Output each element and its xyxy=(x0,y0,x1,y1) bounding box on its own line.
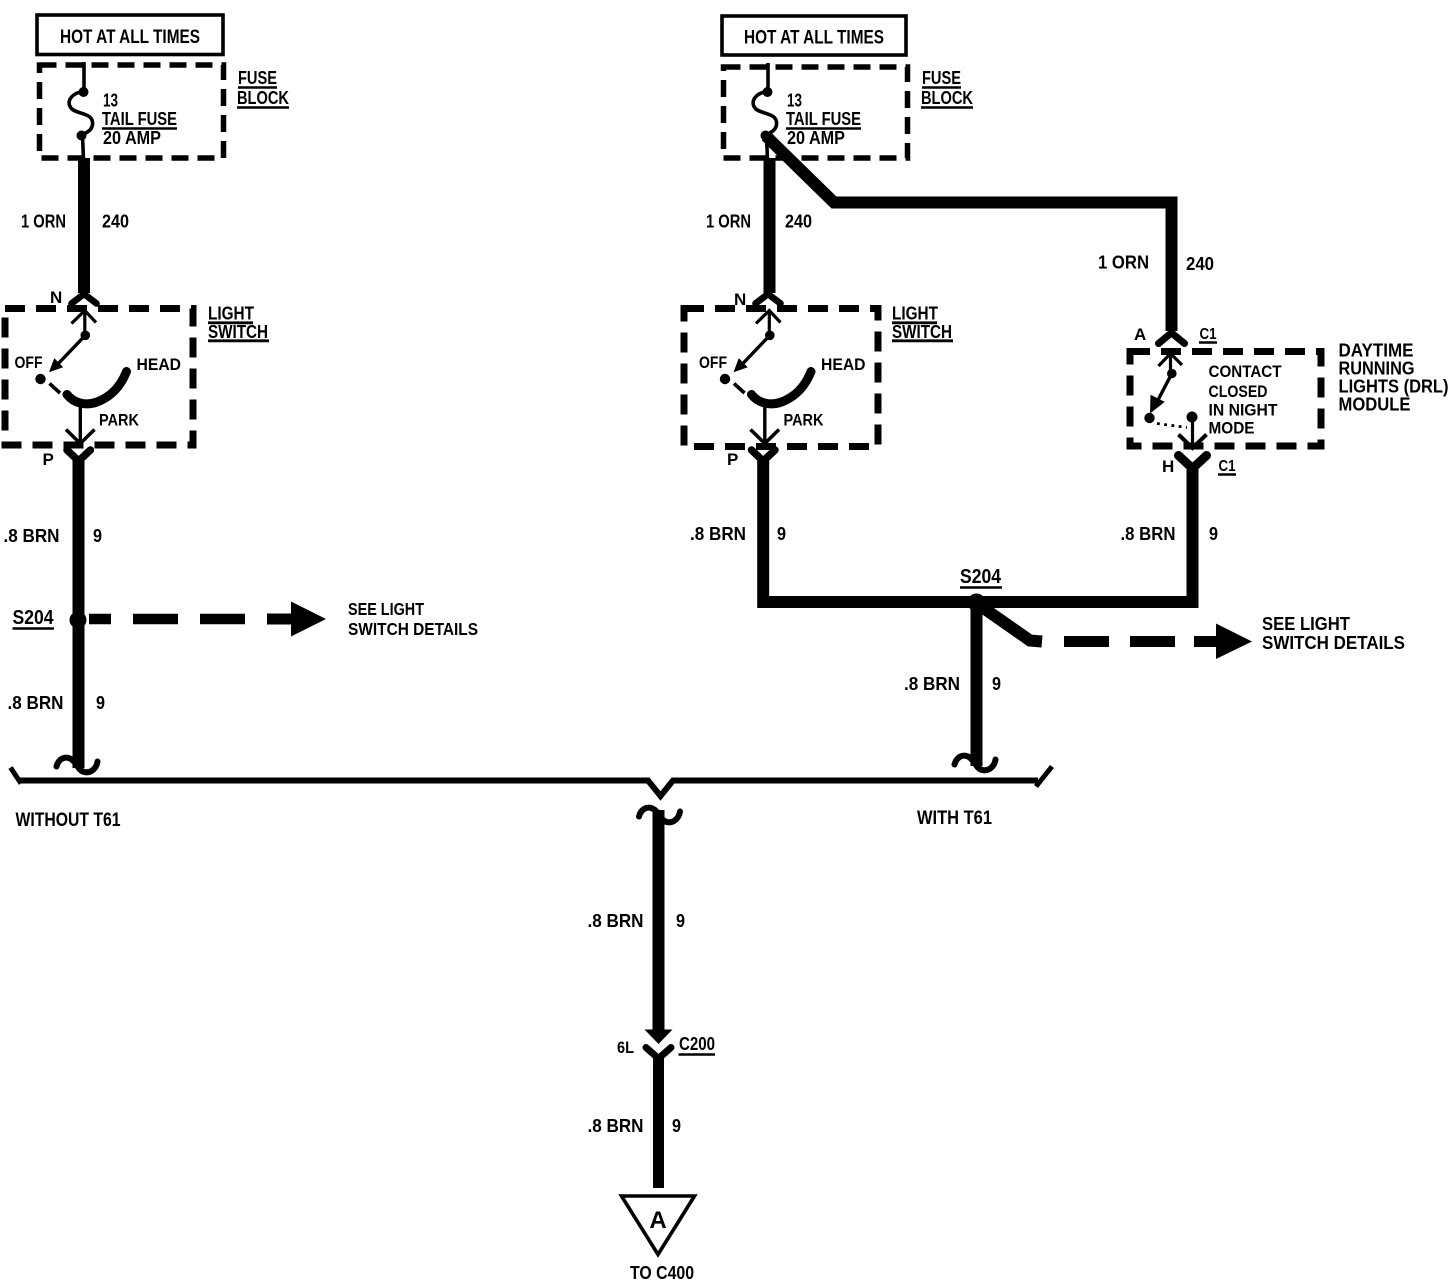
splice hook left wire to bus xyxy=(57,758,98,773)
svg-text:13: 13 xyxy=(787,91,802,111)
OFF tick xyxy=(50,384,61,394)
wire label .8 BRN 9 right lower xyxy=(904,674,1001,694)
svg-text:9: 9 xyxy=(93,526,102,546)
wire label 1 ORN 240 left xyxy=(21,212,129,232)
svg-text:240: 240 xyxy=(1186,254,1214,274)
svg-text:9: 9 xyxy=(676,911,685,931)
fuse F13 TAIL FUSE 20A right xyxy=(753,63,776,160)
wire label .8 BRN 9 right switch xyxy=(690,524,786,544)
wire branch from fuse to DRL (diagonal + horizontal + down) xyxy=(766,136,1172,331)
fuse block label right xyxy=(921,68,973,108)
PARK output arrow xyxy=(79,400,82,442)
light switch internals left xyxy=(15,311,182,444)
connector C200 pin 6L (arrow into chevron) xyxy=(617,1030,715,1059)
fuse value label right xyxy=(786,91,861,149)
fuse F13 TAIL FUSE 20A left xyxy=(69,62,92,160)
fuse value label left xyxy=(102,91,177,149)
svg-text:S204: S204 xyxy=(13,607,55,629)
svg-text:.8 BRN: .8 BRN xyxy=(588,911,644,931)
svg-text:A: A xyxy=(649,1207,666,1234)
splice hook center bus to wire xyxy=(639,808,680,823)
svg-text:H: H xyxy=(1162,457,1174,476)
wire .8 BRN 9 S204 right to bus xyxy=(971,608,983,766)
light switch left (dashed box) xyxy=(5,309,193,446)
pin A entry arrow xyxy=(1159,354,1183,367)
svg-text:.8 BRN: .8 BRN xyxy=(8,693,64,713)
svg-text:P: P xyxy=(43,450,54,469)
wire .8 BRN 9 left upper xyxy=(73,458,85,768)
svg-text:240: 240 xyxy=(102,212,129,232)
svg-text:CONTACT: CONTACT xyxy=(1209,362,1283,381)
DRL module connector pin A (chevron) xyxy=(1134,325,1217,344)
svg-text:P: P xyxy=(727,450,738,469)
splice S204 right xyxy=(960,566,1002,612)
svg-text:HOT AT ALL TIMES: HOT AT ALL TIMES xyxy=(744,28,884,49)
svg-text:IN NIGHT: IN NIGHT xyxy=(1209,401,1279,420)
wire label 1 ORN 240 right xyxy=(706,212,812,232)
svg-text:LIGHT: LIGHT xyxy=(208,304,254,324)
fuse block right (dashed box) xyxy=(724,67,908,158)
svg-text:SWITCH DETAILS: SWITCH DETAILS xyxy=(1262,632,1405,653)
svg-text:C1: C1 xyxy=(1200,326,1217,343)
svg-text:FUSE: FUSE xyxy=(238,68,277,88)
connector pin N right (chevron) xyxy=(734,290,781,309)
svg-text:SEE LIGHT: SEE LIGHT xyxy=(348,599,424,619)
bus wire WITHOUT T61 xyxy=(11,768,1039,832)
svg-text:MODULE: MODULE xyxy=(1339,395,1411,415)
svg-text:TAIL FUSE: TAIL FUSE xyxy=(102,109,177,129)
svg-text:240: 240 xyxy=(785,212,812,232)
svg-text:6L: 6L xyxy=(617,1038,634,1057)
light switch internals right xyxy=(699,311,866,444)
DRL module (dashed box) xyxy=(1130,352,1321,447)
svg-text:TAIL FUSE: TAIL FUSE xyxy=(786,109,861,129)
svg-text:C1: C1 xyxy=(1219,458,1236,475)
connector pin N left (chevron) xyxy=(50,288,97,307)
light switch label left xyxy=(208,304,269,343)
connector pin P right (Y) xyxy=(727,450,775,469)
svg-text:WITH T61: WITH T61 xyxy=(917,808,992,829)
DRL relay contact internals xyxy=(1144,354,1282,449)
pin H exit arrow xyxy=(1191,421,1194,445)
svg-text:13: 13 xyxy=(103,91,118,111)
contact dot right xyxy=(1187,412,1198,423)
svg-text:BLOCK: BLOCK xyxy=(921,88,973,108)
dotted link xyxy=(1157,424,1187,428)
svg-text:.8 BRN: .8 BRN xyxy=(1121,524,1176,544)
svg-text:TO C400: TO C400 xyxy=(630,1263,694,1280)
svg-text:RUNNING: RUNNING xyxy=(1339,359,1415,379)
svg-text:FUSE: FUSE xyxy=(922,68,961,88)
svg-text:SWITCH DETAILS: SWITCH DETAILS xyxy=(348,619,478,639)
wire label .8 BRN 9 bottom xyxy=(588,1116,682,1136)
wire 1 ORN 240 left xyxy=(78,158,90,293)
wire label .8 BRN 9 center xyxy=(588,911,686,931)
off-page connector triangle A xyxy=(622,1196,695,1255)
pin N entry arrow xyxy=(72,311,97,324)
light switch label right xyxy=(892,304,953,343)
contact dot left xyxy=(1144,413,1154,423)
wire .8 BRN 9 right switch to S204 xyxy=(763,458,1192,602)
splice S204 left xyxy=(13,607,87,629)
wire .8 BRN 9 bottom xyxy=(653,1056,664,1188)
DRL connector pin H (Y) xyxy=(1162,456,1236,477)
svg-text:HOT AT ALL TIMES: HOT AT ALL TIMES xyxy=(60,27,200,48)
dashed reference arrow left xyxy=(89,599,478,639)
svg-text:N: N xyxy=(50,288,62,307)
svg-text:A: A xyxy=(1134,325,1146,344)
svg-text:1 ORN: 1 ORN xyxy=(706,212,751,232)
svg-text:BLOCK: BLOCK xyxy=(237,88,289,108)
svg-text:.8 BRN: .8 BRN xyxy=(4,526,60,546)
svg-text:OFF: OFF xyxy=(15,353,43,372)
svg-text:1 ORN: 1 ORN xyxy=(1098,253,1149,273)
OFF contact dot xyxy=(35,374,45,384)
hot-at-all-times box left xyxy=(37,15,223,55)
svg-text:SWITCH: SWITCH xyxy=(892,322,952,342)
wire label 1 ORN 240 DRL branch xyxy=(1098,253,1214,275)
connector pin P left (Y) xyxy=(43,450,91,469)
wire .8 BRN 9 center xyxy=(653,810,665,1031)
splice hook right wire to bus xyxy=(955,756,996,771)
svg-text:DAYTIME: DAYTIME xyxy=(1339,341,1414,361)
DRL module label xyxy=(1339,341,1448,415)
svg-text:.8 BRN: .8 BRN xyxy=(904,674,960,694)
svg-text:HEAD: HEAD xyxy=(137,355,182,374)
svg-text:.8 BRN: .8 BRN xyxy=(588,1116,644,1136)
svg-text:9: 9 xyxy=(992,674,1001,694)
fuse block left (dashed box) xyxy=(40,65,224,158)
light switch right (dashed box) xyxy=(684,309,878,447)
svg-text:CLOSED: CLOSED xyxy=(1209,382,1268,401)
wire 1 ORN 240 right vertical xyxy=(764,158,776,293)
wire label .8 BRN 9 DRL xyxy=(1121,524,1219,544)
svg-text:9: 9 xyxy=(1209,524,1218,544)
svg-text:S204: S204 xyxy=(960,566,1002,588)
svg-text:PARK: PARK xyxy=(99,411,140,430)
wiper contact dot xyxy=(81,331,91,341)
svg-text:C200: C200 xyxy=(679,1034,715,1054)
svg-text:9: 9 xyxy=(672,1116,681,1136)
svg-text:20 AMP: 20 AMP xyxy=(103,128,161,148)
svg-text:SEE LIGHT: SEE LIGHT xyxy=(1262,613,1351,634)
svg-text:.8 BRN: .8 BRN xyxy=(690,524,746,544)
wiper arm to OFF xyxy=(56,335,85,366)
dashed reference arrow right xyxy=(982,607,1405,659)
rotary arc xyxy=(67,372,127,404)
hot-at-all-times box right xyxy=(722,16,906,55)
svg-text:LIGHTS (DRL): LIGHTS (DRL) xyxy=(1339,377,1448,397)
svg-text:MODE: MODE xyxy=(1209,419,1255,438)
wire label .8 BRN 9 left lower xyxy=(8,693,106,713)
contact arm xyxy=(1157,374,1172,403)
svg-text:9: 9 xyxy=(96,693,105,713)
svg-text:LIGHT: LIGHT xyxy=(892,304,938,324)
bus wire WITH T61 xyxy=(917,767,1052,830)
svg-text:N: N xyxy=(734,290,746,309)
svg-text:WITHOUT T61: WITHOUT T61 xyxy=(16,810,121,831)
wire label .8 BRN 9 left upper xyxy=(4,526,103,546)
svg-text:9: 9 xyxy=(777,524,786,544)
svg-text:20 AMP: 20 AMP xyxy=(787,128,845,148)
svg-text:SWITCH: SWITCH xyxy=(208,322,268,342)
fuse block label left xyxy=(237,68,289,108)
contact arm pivot dot xyxy=(1167,369,1177,379)
svg-text:1 ORN: 1 ORN xyxy=(21,212,66,232)
